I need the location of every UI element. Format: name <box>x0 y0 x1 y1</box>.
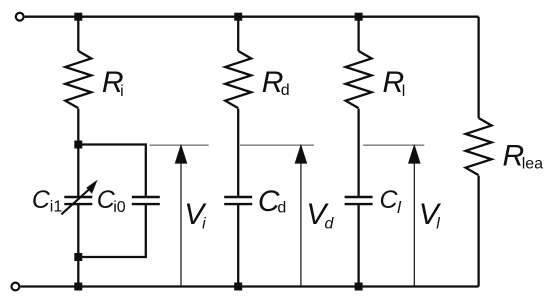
label Vl <box>419 198 442 232</box>
svg-text:l: l <box>436 215 440 232</box>
wire branch1 below Ci1 <box>77 204 79 257</box>
arrowhead Vl <box>408 144 421 164</box>
capacitor Cl <box>345 197 373 204</box>
capacitor Ci0 <box>132 197 160 204</box>
label Rlea <box>503 140 544 173</box>
label Ci1 <box>32 186 62 216</box>
resistor Ri <box>65 51 91 108</box>
node Vi reference line <box>149 144 208 146</box>
svg-text:C: C <box>380 186 399 214</box>
junction at branch1 / bottom bus <box>74 283 82 291</box>
wire Ci0 loop top <box>78 145 146 198</box>
resistor Rd <box>225 51 251 108</box>
input terminal (top-left open circle) <box>16 13 24 21</box>
label Cd <box>258 185 286 218</box>
svg-text:l: l <box>397 198 402 217</box>
junction at branch1 / loop bottom <box>74 253 82 261</box>
resistor Rlea <box>466 118 492 175</box>
node Vd reference line <box>240 144 314 146</box>
junction at branch1 / loop top <box>74 141 82 149</box>
label Ri <box>102 66 124 100</box>
svg-text:i: i <box>202 215 206 232</box>
wire right branch lower segment <box>477 176 479 287</box>
svg-text:l: l <box>402 83 406 100</box>
svg-text:i: i <box>120 83 124 100</box>
arrow Vd <box>300 163 302 287</box>
svg-text:d: d <box>325 215 335 232</box>
wire branch1 bottom <box>77 257 79 287</box>
wire branch3 top <box>357 17 359 51</box>
node Vl reference line <box>363 144 424 146</box>
svg-text:i0: i0 <box>113 199 126 216</box>
arrow Vl <box>413 163 415 287</box>
svg-text:lea: lea <box>522 156 543 173</box>
wire branch2 middle <box>237 109 239 197</box>
wire branch1 middle <box>77 109 79 145</box>
label Cl <box>380 186 403 217</box>
resistor Rl <box>346 51 372 108</box>
label Vi <box>184 198 207 232</box>
svg-text:d: d <box>277 199 286 216</box>
wire Ci0 loop bottom <box>78 204 146 257</box>
wire branch3 middle <box>357 109 359 197</box>
svg-text:C: C <box>32 186 51 214</box>
wire branch2 top <box>237 17 239 51</box>
wire top bus <box>25 16 479 18</box>
wire branch2 bottom <box>237 204 239 286</box>
label Rd <box>262 66 290 99</box>
capacitor Ci1 (variable) <box>61 180 97 215</box>
junction at branch3 / top bus <box>355 13 363 21</box>
arrowhead Vd <box>295 144 308 164</box>
wire branch1 to Ci1 <box>77 145 79 198</box>
label Vd <box>306 198 334 232</box>
junction at branch3 / bottom bus <box>355 283 363 291</box>
junction at branch1 / top bus <box>74 13 82 21</box>
capacitor Cd <box>224 197 252 204</box>
label Ci0 <box>97 186 126 216</box>
svg-text:i1: i1 <box>50 199 63 216</box>
wire branch1 top <box>77 17 79 51</box>
label Rl <box>383 66 406 100</box>
wire bottom bus <box>20 285 478 287</box>
output terminal (bottom-left open circle) <box>12 283 20 291</box>
junction at branch2 / bottom bus <box>234 283 242 291</box>
wire branch3 bottom <box>357 204 359 286</box>
arrowhead Vi <box>175 144 188 164</box>
svg-text:d: d <box>281 82 290 99</box>
wire right branch upper segment <box>477 17 479 118</box>
arrow Vi <box>180 163 182 287</box>
junction at branch2 / top bus <box>234 13 242 21</box>
